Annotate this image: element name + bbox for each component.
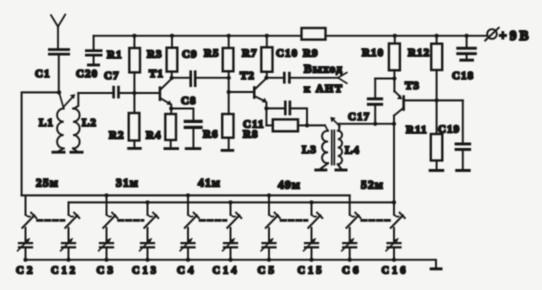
wire T1 collector up	[171, 72, 173, 78]
variable capacitor C13	[132, 228, 159, 277]
ground under L3	[314, 169, 327, 172]
ground under C18	[459, 59, 474, 62]
svg-text:R9: R9	[303, 48, 319, 60]
switch S5 for C5	[266, 195, 280, 227]
ground under L1	[52, 151, 66, 154]
ground under C20	[87, 64, 100, 67]
node T2 emitter / C11	[264, 106, 268, 110]
switch S3 for C3	[103, 195, 117, 227]
svg-text:T3: T3	[405, 80, 420, 92]
inductor L1	[39, 93, 75, 151]
resistor R4	[146, 114, 176, 147]
wire base to T1	[134, 92, 158, 94]
node bus2 junctions	[145, 200, 313, 204]
svg-text:R10: R10	[362, 47, 384, 59]
resistor R1	[107, 34, 140, 93]
switch S13 for C13	[144, 202, 158, 227]
svg-text:к АНТ: к АНТ	[304, 84, 343, 95]
capacitor C1	[35, 48, 70, 92]
transistor T2	[240, 70, 267, 103]
node bus2 end	[392, 200, 396, 204]
svg-text:R1: R1	[107, 49, 123, 61]
node T2 base	[227, 90, 231, 94]
resistor R8	[243, 119, 307, 140]
ground under R11	[429, 169, 445, 172]
ground under R4	[164, 147, 180, 150]
capacitor C20	[76, 36, 103, 80]
ground under C19	[455, 169, 471, 172]
svg-text:C6: C6	[342, 266, 362, 277]
ground under R2	[127, 147, 142, 150]
svg-text:R5: R5	[204, 48, 220, 60]
bottom bus	[25, 260, 437, 268]
wire C17 top to R10	[375, 78, 394, 80]
svg-text:C10: C10	[276, 48, 298, 60]
wire T3 base to bias node	[405, 99, 463, 101]
svg-text:C4: C4	[177, 266, 197, 277]
node bus1 junctions	[104, 193, 271, 197]
bus1 band switches	[22, 194, 350, 196]
svg-text:R11: R11	[406, 124, 428, 136]
node tank junction	[57, 90, 61, 94]
svg-text:C18: C18	[452, 70, 474, 82]
wire tank to switch riser	[22, 92, 59, 195]
ganged switch link dashes	[38, 219, 390, 222]
node C17 bottom	[373, 122, 377, 126]
capacitor C7	[104, 70, 134, 98]
svg-text:25м: 25м	[36, 178, 59, 190]
transistor T1	[149, 68, 172, 105]
capacitor C10	[266, 48, 298, 84]
svg-text:52м: 52м	[361, 180, 384, 192]
svg-text:C16: C16	[382, 266, 409, 277]
svg-text:R4: R4	[146, 130, 162, 142]
switch S14 for C14	[227, 202, 241, 227]
variable capacitor C15	[298, 228, 325, 277]
switch S6 for C6	[347, 195, 361, 227]
switch S12 for C12	[65, 202, 79, 227]
ground main	[430, 267, 443, 270]
wire L4 top to T3 collector line	[339, 123, 394, 125]
variable capacitor C5	[258, 228, 278, 277]
transformer core L3-L4	[332, 131, 335, 165]
resistor R6	[203, 92, 234, 149]
wire base to T2	[229, 91, 253, 93]
variable capacitor C6	[342, 228, 362, 277]
node C9 / R5	[227, 76, 231, 80]
node R8 / C11	[305, 123, 309, 127]
wire T1 emitter down	[170, 105, 172, 115]
svg-text:C9: C9	[182, 49, 198, 61]
node T1 collector / C9	[170, 76, 174, 80]
resistor R9	[302, 28, 326, 60]
capacitor C17	[348, 79, 383, 124]
node T2 collector	[264, 76, 268, 80]
switch S16 for C16	[391, 202, 405, 227]
ground under R6	[221, 149, 235, 152]
svg-text:41м: 41м	[198, 178, 221, 190]
wire L2 to C7	[78, 92, 112, 94]
svg-text:C8: C8	[181, 95, 197, 107]
switch S4 for C4	[185, 195, 199, 227]
inductor L4	[330, 117, 360, 169]
svg-text:C14: C14	[213, 266, 240, 277]
svg-text:L2: L2	[82, 117, 97, 129]
variable capacitor C2	[16, 228, 36, 277]
svg-text:T1: T1	[149, 68, 164, 80]
wire T2 emitter down	[265, 103, 267, 126]
resistor R11	[406, 100, 442, 169]
ground under L2	[70, 151, 84, 154]
inductor L2	[73, 93, 97, 151]
svg-text:C7: C7	[104, 70, 120, 82]
wire to L3	[307, 124, 325, 126]
ground under C8	[185, 147, 202, 150]
node R10 bottom	[392, 76, 396, 80]
resistor R3	[147, 34, 177, 72]
svg-text:R7: R7	[242, 48, 258, 60]
svg-text:Выход: Выход	[304, 64, 343, 76]
output wire and fork to antenna	[291, 64, 347, 96]
resistor R10	[362, 34, 400, 79]
capacitor C18	[452, 34, 477, 82]
svg-text:L3: L3	[302, 144, 317, 156]
svg-text:C12: C12	[51, 266, 78, 277]
switch S2 for C2	[22, 195, 36, 227]
variable capacitor C16	[382, 228, 409, 277]
+9V terminal	[485, 28, 531, 43]
svg-text:C19: C19	[438, 124, 460, 136]
variable capacitor C4	[177, 228, 197, 277]
svg-text:C15: C15	[298, 266, 325, 277]
node T1 emitter	[169, 106, 173, 110]
svg-text:C20: C20	[76, 68, 98, 80]
svg-text:C17: C17	[348, 111, 370, 123]
wire emitter to C8	[171, 109, 193, 120]
svg-text:C13: C13	[132, 266, 159, 277]
transistor T3	[394, 79, 420, 116]
wire T3 collector down to band switch	[393, 116, 395, 203]
capacitor C9	[172, 49, 229, 88]
capacitor C11	[243, 101, 307, 131]
svg-text:T2: T2	[240, 70, 255, 82]
variable capacitor C3	[97, 228, 117, 277]
capacitor C19	[438, 100, 471, 169]
resistor R2	[109, 93, 139, 147]
svg-text:L4: L4	[345, 145, 360, 157]
svg-text:C5: C5	[258, 266, 278, 277]
svg-text:49м: 49м	[278, 180, 301, 192]
resistor R5	[204, 34, 233, 92]
node T1 base	[132, 91, 136, 95]
svg-text:R8: R8	[243, 129, 259, 141]
capacitor C8	[181, 95, 203, 147]
switch S15 for C15	[308, 202, 322, 227]
svg-text:R2: R2	[109, 130, 125, 142]
ground under L4	[335, 169, 348, 172]
svg-text:R3: R3	[147, 49, 163, 61]
svg-text:R12: R12	[408, 47, 430, 59]
svg-text:+9В: +9В	[499, 28, 531, 43]
resistor R7	[242, 34, 273, 78]
bus2 band switches	[69, 201, 395, 203]
variable capacitor C12	[51, 228, 78, 277]
svg-text:C3: C3	[97, 266, 117, 277]
node collector / L4 wire	[392, 122, 396, 126]
svg-text:31м: 31м	[116, 178, 139, 190]
svg-text:C1: C1	[35, 68, 51, 80]
svg-text:L1: L1	[39, 117, 54, 129]
svg-text:C2: C2	[16, 266, 36, 277]
inductor L3	[302, 125, 328, 168]
resistor R12	[408, 34, 442, 101]
variable capacitor C14	[213, 228, 240, 277]
power rail	[94, 35, 487, 37]
antenna	[51, 15, 65, 48]
node R12 / R11	[435, 98, 439, 102]
svg-text:R6: R6	[203, 129, 219, 141]
